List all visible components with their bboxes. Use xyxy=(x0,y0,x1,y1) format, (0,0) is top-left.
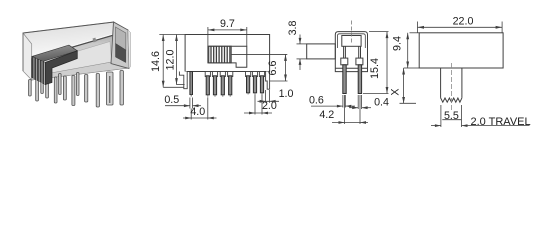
dimension 12.0 xyxy=(177,35,185,85)
dimension 2.0 xyxy=(244,95,272,115)
side view pin front xyxy=(343,65,346,94)
svg-text:15.4: 15.4 xyxy=(369,58,381,79)
3d front top edge highlight xyxy=(53,30,128,52)
dimension 3.8 xyxy=(297,35,307,71)
stem sides xyxy=(441,68,462,102)
knob hatch lines xyxy=(211,46,230,63)
dimension 0.6 xyxy=(311,95,355,108)
knob hatched block xyxy=(209,46,231,63)
top view body outline xyxy=(419,33,503,68)
3d right end recess xyxy=(116,27,126,50)
3d knob knurl face xyxy=(32,56,46,84)
side view inner wall contour xyxy=(338,34,366,48)
actuator shaft side view xyxy=(307,44,336,59)
svg-text:3.8: 3.8 xyxy=(287,21,299,36)
right mounting bracket front view xyxy=(266,72,270,90)
body top extension line (left) xyxy=(159,34,185,36)
3d body left end face xyxy=(23,33,32,80)
left leg tip xyxy=(190,95,192,97)
3d bracket middle slot xyxy=(109,76,111,103)
3d cover clip notch left xyxy=(64,46,68,51)
3d knob top face xyxy=(33,45,78,62)
stem serrated tip xyxy=(441,98,462,102)
svg-text:0.6: 0.6 xyxy=(309,94,324,106)
3d front top edge xyxy=(54,31,129,53)
pin tips front view xyxy=(208,93,262,97)
svg-text:6.6: 6.6 xyxy=(267,61,279,76)
3d right end chamfer highlight xyxy=(128,30,131,69)
svg-text:2.0 TRAVEL: 2.0 TRAVEL xyxy=(471,116,531,128)
side view inner bottom line xyxy=(335,67,367,69)
side view window xyxy=(342,36,361,47)
dimension 4.2 xyxy=(332,95,368,124)
3d body front face xyxy=(32,30,130,80)
dimension 9.4 xyxy=(404,33,420,68)
slot mid line / 6.6 upper extension xyxy=(231,53,287,55)
svg-text:9.4: 9.4 xyxy=(392,36,404,51)
contact strip right xyxy=(358,46,360,58)
svg-text:9.7: 9.7 xyxy=(220,18,235,30)
3d body left back edge xyxy=(22,33,24,71)
svg-text:14.6: 14.6 xyxy=(150,51,162,72)
stem centerline xyxy=(450,63,452,110)
3d knob body dark face xyxy=(45,51,77,85)
svg-text:4.0: 4.0 xyxy=(190,106,205,118)
dimension 0.5 xyxy=(165,98,201,109)
3d cover clip notch right xyxy=(93,38,97,43)
svg-text:12.0: 12.0 xyxy=(165,50,177,71)
dimension 9.7 xyxy=(208,27,247,46)
3d right end frame xyxy=(111,22,129,69)
contact square right xyxy=(356,58,363,65)
3d pins xyxy=(29,71,124,108)
3d right mounting bracket xyxy=(107,72,114,105)
front view body outline xyxy=(185,35,270,72)
svg-text:4.2: 4.2 xyxy=(319,109,334,121)
svg-text:22.0: 22.0 xyxy=(453,16,474,28)
dimension 6.6 xyxy=(270,54,288,81)
contact square left xyxy=(341,58,348,65)
3d body back top edge xyxy=(23,22,114,33)
dimension 5.5 xyxy=(431,105,530,127)
left mounting bracket front view xyxy=(179,72,187,89)
3d base bottom strip xyxy=(32,62,130,80)
3d knob knurl ridges xyxy=(34,57,45,84)
dimension 15.4 xyxy=(363,32,389,94)
pin shoulders front view xyxy=(205,72,264,77)
dimension 0.4 xyxy=(349,95,371,109)
svg-text:0.4: 0.4 xyxy=(374,96,389,108)
contact strip left xyxy=(343,46,345,58)
svg-text:0.5: 0.5 xyxy=(164,94,179,106)
knob slot outline xyxy=(208,46,247,67)
3d front cover plate xyxy=(38,42,112,77)
dimension X xyxy=(400,68,417,104)
dimension 1.0 xyxy=(258,90,280,103)
svg-text:1.0: 1.0 xyxy=(279,88,294,100)
side view body outline xyxy=(307,32,368,72)
pins front view (4 left) xyxy=(206,76,263,95)
side view pin rear xyxy=(358,65,361,94)
dimension 22.0 xyxy=(418,22,503,33)
left support leg front view xyxy=(190,72,193,95)
dimension 4.0 xyxy=(183,97,217,119)
side view centerline xyxy=(350,21,352,45)
pins front view (3 right) xyxy=(247,76,250,93)
svg-text:X: X xyxy=(390,88,402,95)
3d right end recess lower xyxy=(116,44,126,63)
3d body top face xyxy=(23,22,128,58)
dimension 14.6 xyxy=(163,35,184,88)
svg-text:5.5: 5.5 xyxy=(444,110,459,122)
